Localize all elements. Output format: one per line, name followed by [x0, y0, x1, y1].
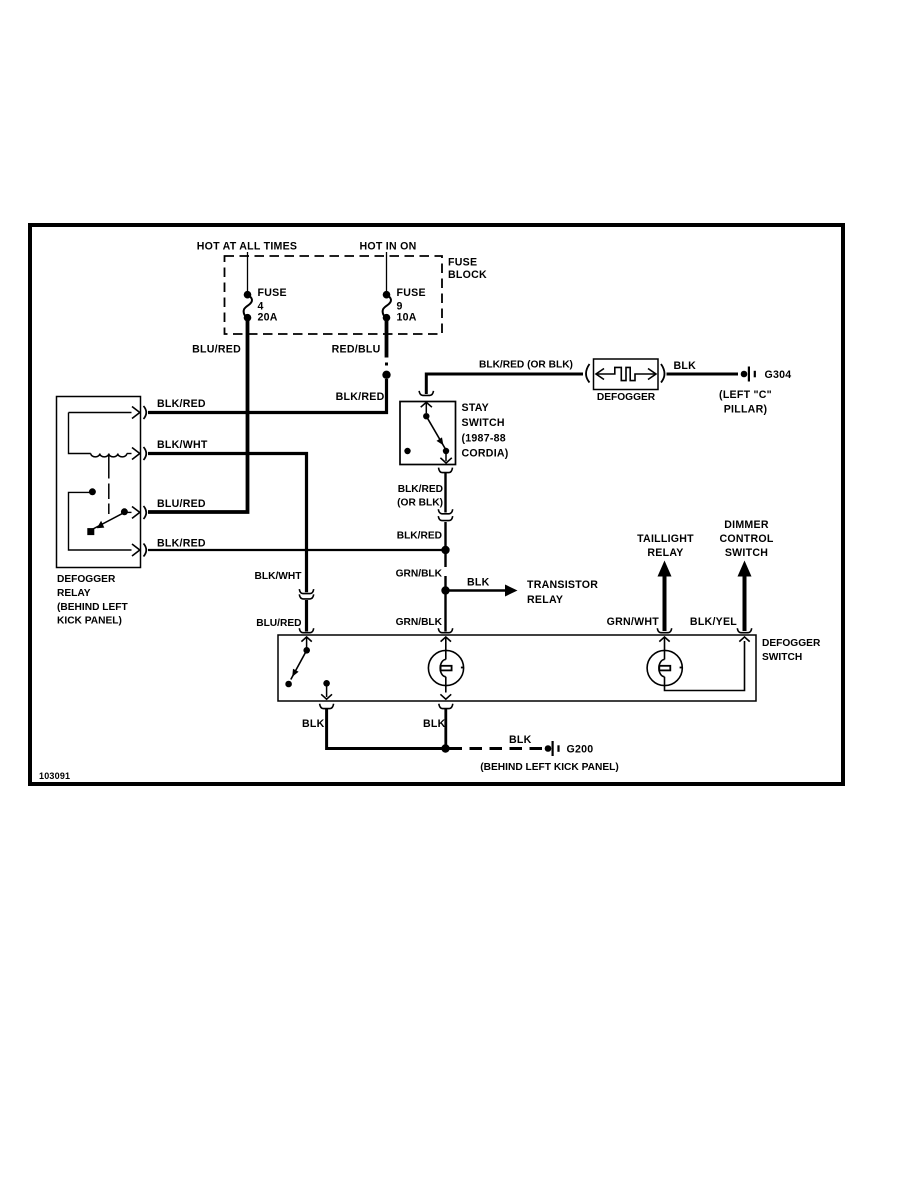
wire GRN/BLK dashed segment: [444, 554, 446, 587]
stay switch left contact: [404, 448, 410, 454]
svg-text:G304: G304: [765, 369, 792, 381]
svg-text:BLK/WHT: BLK/WHT: [255, 571, 303, 582]
relay coil L: [91, 454, 127, 457]
svg-text:BLK: BLK: [302, 718, 325, 730]
wire BLK dashed to G200: [450, 747, 543, 750]
svg-text:FUSE: FUSE: [448, 257, 477, 269]
connector into defogger switch (GRN/BLK): [438, 628, 452, 633]
defogger switch contact set: [285, 637, 332, 699]
wire BLK/RED from junction down-left to relay pin 1: [148, 379, 387, 413]
svg-text:10A: 10A: [397, 312, 417, 324]
stay switch top terminal arrow: [421, 402, 432, 407]
svg-text:(BEHIND LEFT: (BEHIND LEFT: [57, 602, 129, 613]
defogger switch box: [278, 635, 756, 701]
node junction of relay pin4 and stay switch: [441, 546, 449, 554]
svg-text:BLU/RED: BLU/RED: [157, 498, 206, 510]
svg-text:HOT AT ALL TIMES: HOT AT ALL TIMES: [197, 241, 298, 253]
wire BLK/RED (OR BLK) below stay switch: [444, 473, 446, 513]
svg-text:GRN/BLK: GRN/BLK: [396, 617, 443, 628]
connector below stay switch: [439, 468, 453, 473]
connector top (GRN/WHT): [657, 628, 671, 633]
svg-text:BLK/RED: BLK/RED: [398, 484, 443, 495]
relay pin 1 arrow (BLK/RED): [69, 406, 147, 419]
svg-text:BLOCK: BLOCK: [448, 269, 487, 281]
svg-text:RELAY: RELAY: [57, 588, 91, 599]
wire RED/BLU from fuse 9 down: [385, 318, 389, 358]
wire BLK/YEL arrow to dimmer control switch: [690, 519, 774, 631]
svg-text:DIMMER: DIMMER: [724, 519, 769, 531]
svg-text:(BEHIND LEFT KICK PANEL): (BEHIND LEFT KICK PANEL): [480, 762, 618, 773]
inline connector: [438, 509, 452, 514]
relay pin 2 arrow (BLK/WHT): [127, 447, 146, 460]
svg-text:BLK: BLK: [509, 734, 532, 746]
node stay switch contact: [443, 448, 449, 454]
svg-text:G200: G200: [567, 744, 594, 756]
relay pin 4 arrow (BLK/RED): [132, 544, 146, 557]
svg-text:SWITCH: SWITCH: [762, 652, 802, 663]
relay actuation dashed link: [108, 454, 110, 479]
svg-text:BLK/WHT: BLK/WHT: [157, 439, 208, 451]
connector out bottom left (BLK): [320, 704, 334, 709]
wire BLU/RED from fuse 4 down to relay pin 3: [148, 318, 248, 512]
svg-text:DEFOGGER: DEFOGGER: [597, 392, 656, 403]
svg-text:PILLAR): PILLAR): [724, 404, 768, 416]
connector break tick: [385, 363, 388, 366]
wire from HOT IN ON to fuse 9: [386, 252, 388, 292]
svg-text:BLK: BLK: [674, 360, 697, 372]
svg-text:DEFOGGER: DEFOGGER: [57, 574, 116, 585]
svg-text:CONTROL: CONTROL: [719, 533, 773, 545]
svg-text:BLK/RED: BLK/RED: [157, 398, 206, 410]
svg-text:103091: 103091: [39, 771, 70, 781]
svg-text:BLK/RED: BLK/RED: [157, 538, 206, 550]
stay switch blade: [426, 416, 446, 450]
wire BLK/RED (OR BLK) from stay switch to defogger: [426, 374, 583, 394]
connector top (BLK/YEL): [737, 628, 751, 633]
relay caption: [57, 574, 129, 627]
svg-text:20A: 20A: [258, 312, 278, 324]
lamp 1 (defogger indicator): [428, 637, 463, 699]
svg-text:BLK: BLK: [467, 577, 490, 589]
svg-text:SWITCH: SWITCH: [725, 547, 768, 559]
svg-text:RELAY: RELAY: [527, 594, 563, 606]
svg-text:STAY: STAY: [462, 402, 490, 414]
svg-text:TAILLIGHT: TAILLIGHT: [637, 533, 694, 545]
relay common contact wire: [69, 492, 132, 550]
connector out bottom mid (BLK): [439, 704, 453, 709]
fuse block (dashed box): [225, 256, 443, 334]
connector ( into defogger: [586, 364, 590, 383]
svg-text:FUSE: FUSE: [397, 287, 426, 299]
wire BLK bottom left: [327, 709, 446, 749]
node junction dot on BLK/RED feed: [382, 371, 390, 379]
defogger relay box: [57, 397, 141, 568]
inline connector BLK/WHT to BLU/RED: [255, 571, 314, 632]
connector into defogger switch (BLU/RED): [299, 628, 313, 633]
wire BLK to G304: [667, 373, 739, 376]
ground G304: [719, 367, 791, 416]
svg-text:RELAY: RELAY: [647, 547, 683, 559]
outer frame: [30, 225, 843, 784]
svg-text:SWITCH: SWITCH: [462, 417, 505, 429]
svg-text:BLK/RED: BLK/RED: [336, 391, 385, 403]
svg-text:(LEFT "C": (LEFT "C": [719, 389, 772, 401]
svg-text:CORDIA): CORDIA): [462, 448, 509, 460]
svg-text:BLK/YEL: BLK/YEL: [690, 616, 737, 628]
relay coil wire: [69, 413, 91, 454]
relay pin 3 arrow (BLU/RED): [124, 506, 146, 519]
fuse F9 10A: [383, 287, 426, 324]
svg-text:(1987-88: (1987-88: [462, 433, 506, 445]
stay switch bottom terminal arrow: [445, 452, 447, 461]
svg-text:GRN/WHT: GRN/WHT: [607, 616, 660, 628]
wire BLK to transistor relay: [450, 577, 599, 607]
wire BLK/WHT from relay pin 2: [148, 454, 307, 593]
svg-text:FUSE: FUSE: [258, 287, 287, 299]
relay switch blade: [87, 508, 128, 535]
wire BLK/RED from relay pin 4 to node: [148, 549, 446, 551]
ground G200: [480, 741, 618, 773]
wire from HOT AT ALL TIMES to fuse 4: [247, 252, 249, 292]
svg-text:BLK: BLK: [423, 718, 446, 730]
wire GRN/WHT arrow to taillight relay: [607, 533, 695, 631]
svg-text:RED/BLU: RED/BLU: [332, 344, 381, 356]
fuse F4 20A: [244, 287, 287, 324]
connector ) out of defogger: [661, 364, 665, 383]
wire BLK/RED to junction: [444, 522, 446, 550]
svg-text:BLU/RED: BLU/RED: [192, 344, 241, 356]
connector into stay switch: [419, 391, 433, 396]
svg-text:BLK/RED: BLK/RED: [397, 531, 442, 542]
svg-text:(OR BLK): (OR BLK): [397, 498, 443, 509]
node ground junction: [441, 744, 449, 752]
defogger grid element: [594, 359, 659, 403]
node junction to transistor relay: [441, 586, 449, 594]
svg-text:KICK PANEL): KICK PANEL): [57, 616, 122, 627]
wire GRN/BLK to defogger switch: [444, 595, 446, 632]
svg-text:DEFOGGER: DEFOGGER: [762, 638, 821, 649]
lamp 2 (switch illumination): [647, 637, 750, 691]
node relay common contact: [89, 488, 96, 495]
svg-text:TRANSISTOR: TRANSISTOR: [527, 579, 598, 591]
node stay switch pivot: [423, 413, 429, 419]
stay switch box: [400, 402, 456, 465]
wire BLK bottom mid: [444, 709, 447, 749]
svg-text:BLU/RED: BLU/RED: [256, 618, 301, 629]
svg-text:GRN/BLK: GRN/BLK: [396, 569, 443, 580]
stay switch caption: [462, 402, 509, 460]
svg-text:HOT IN ON: HOT IN ON: [360, 241, 417, 253]
svg-text:BLK/RED (OR BLK): BLK/RED (OR BLK): [479, 360, 573, 371]
